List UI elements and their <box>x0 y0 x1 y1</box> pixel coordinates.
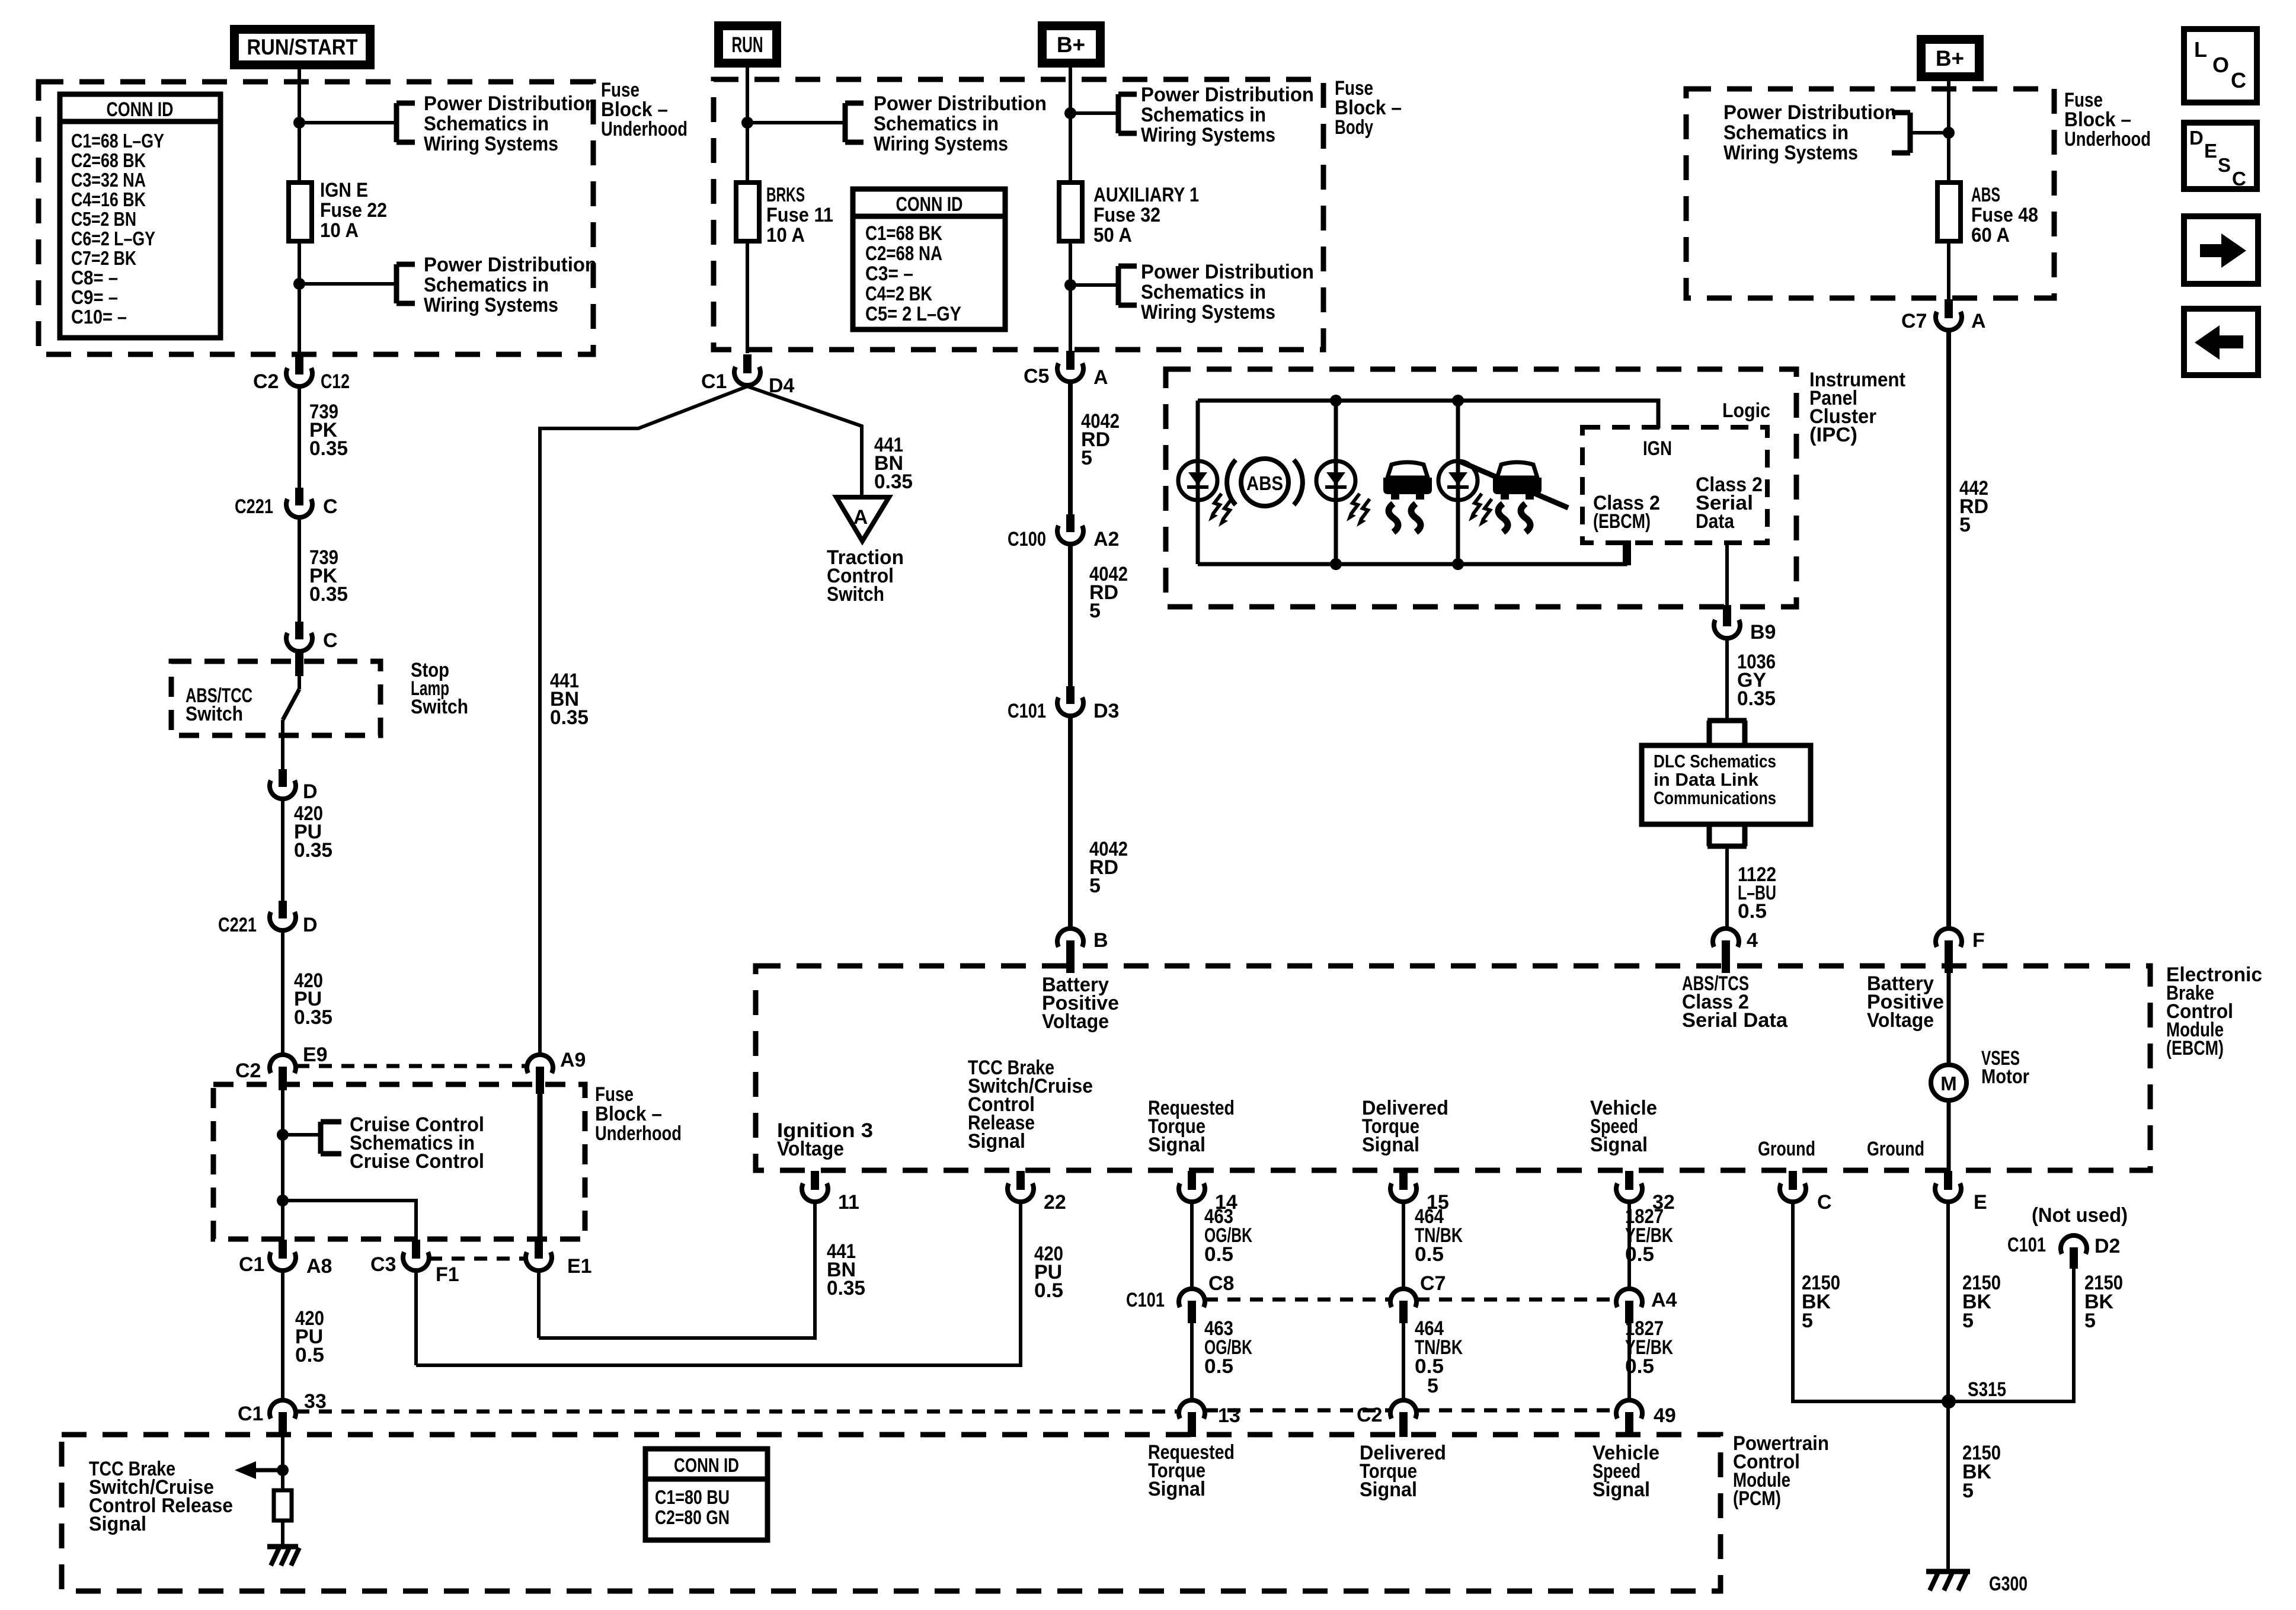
IPC lamp feed wire 2 <box>1330 395 1342 570</box>
connector C101 / D3 <box>1008 686 1119 722</box>
svg-text:0.5: 0.5 <box>1625 1355 1654 1378</box>
svg-text:4: 4 <box>1747 929 1758 952</box>
junction + branch Cruise Control Schematics <box>277 1113 484 1173</box>
wire 420 PU 0.5 : A8 down to C1/33 <box>283 1270 324 1400</box>
wire F to VSES motor <box>1947 966 1951 1065</box>
fuse BRKS Fuse 11 10 A <box>736 183 833 247</box>
svg-text:B9: B9 <box>1750 621 1776 644</box>
connector table CONN ID (underhood fuse block) <box>60 94 220 338</box>
label Traction Control Switch <box>827 546 904 606</box>
wire B+ down to C5/A <box>1069 68 1072 351</box>
svg-text:C3=32 NA: C3=32 NA <box>71 169 146 191</box>
wire 463 OG/BK 0.5 : C8 to 13 <box>1192 1317 1252 1400</box>
label Ground (right) <box>1867 1138 1924 1160</box>
connector C7 / A <box>1901 299 1986 332</box>
wire 739 PK 0.35 (upper) <box>299 386 348 488</box>
connector F (EBCM battery positive) <box>1936 929 1985 973</box>
wire 420 PU 0.35 (lower) <box>283 930 332 1055</box>
wire E9 stub down through cruise box <box>281 1090 284 1240</box>
label ABS/TCC Switch <box>186 684 252 725</box>
svg-text:60 A: 60 A <box>1971 224 2010 247</box>
svg-text:Schematics in: Schematics in <box>1141 104 1266 126</box>
svg-text:Voltage: Voltage <box>1042 1010 1109 1033</box>
connector C2 (PCM delivered torque) <box>1357 1400 1416 1437</box>
traction-off car symbol (slashed) <box>1460 462 1568 532</box>
connector table CONN ID (body fuse block) <box>853 189 1005 329</box>
connector D2 (not used) <box>2061 1235 2087 1269</box>
label Vehicle Speed Signal (EBCM) <box>1590 1097 1657 1156</box>
wire 420 PU 0.35 (upper) <box>283 799 332 901</box>
svg-text:C1=68 BK: C1=68 BK <box>865 222 942 245</box>
svg-text:C3: C3 <box>370 1253 396 1276</box>
IPC top bus wire <box>1198 401 1658 428</box>
connector C1 / 33 <box>238 1390 327 1437</box>
DLC schematics reference box <box>1642 745 1811 824</box>
electronic brake control module (EBCM) dashed box <box>756 966 2150 1170</box>
svg-text:Power Distribution: Power Distribution <box>1723 101 1897 124</box>
forward arrow navigation box <box>2184 216 2258 284</box>
connector 15 (delivered torque) <box>1390 1171 1449 1214</box>
svg-text:C8: C8 <box>1208 1272 1234 1295</box>
svg-text:BRKS: BRKS <box>766 184 805 206</box>
svg-text:Body: Body <box>1335 116 1373 139</box>
svg-text:A: A <box>853 506 868 529</box>
svg-text:RUN/START: RUN/START <box>247 35 358 59</box>
svg-text:Switch: Switch <box>186 703 243 725</box>
svg-text:C1: C1 <box>701 370 727 393</box>
connector 22 (TCC brake switch signal) <box>1008 1171 1066 1214</box>
off-page triangle A (traction control switch) <box>836 497 889 541</box>
branch symbol Power Distribution (lower, block1) <box>396 254 597 316</box>
label Class 2 (EBCM) <box>1593 492 1660 533</box>
svg-text:(EBCM): (EBCM) <box>2166 1037 2224 1060</box>
svg-text:Power Distribution: Power Distribution <box>1141 84 1314 106</box>
connector C221 / D <box>218 901 318 936</box>
dashed wire PCM row 13-C2-49 <box>1205 1409 1616 1413</box>
connector C (stop lamp switch) <box>286 622 338 652</box>
svg-text:(EBCM): (EBCM) <box>1593 510 1651 533</box>
svg-text:Serial Data: Serial Data <box>1682 1009 1788 1032</box>
IGN logic dashed box <box>1582 427 1767 543</box>
connector B9 <box>1714 605 1776 644</box>
resistor (pull-up) <box>274 1490 292 1521</box>
connector 14 (requested torque) <box>1179 1171 1237 1214</box>
svg-text:0.5: 0.5 <box>1625 1243 1654 1266</box>
svg-text:C1: C1 <box>239 1253 264 1276</box>
svg-text:Ground: Ground <box>1867 1138 1924 1160</box>
LOC navigation box <box>2184 29 2257 103</box>
svg-text:Signal: Signal <box>1148 1134 1205 1156</box>
svg-text:C5= 2 L–GY: C5= 2 L–GY <box>865 303 961 325</box>
signal arrow (TCC brake switch) <box>235 1461 283 1479</box>
svg-text:10 A: 10 A <box>320 219 359 242</box>
wire 4042 RD 5 (C101-B) <box>1070 716 1128 929</box>
svg-text:Switch: Switch <box>827 583 884 606</box>
label Class 2 Serial Data <box>1696 473 1763 533</box>
svg-text:0.35: 0.35 <box>309 437 348 460</box>
wire split C1/D4 to traction switch and to A9 column <box>540 386 747 1055</box>
svg-text:in Data Link: in Data Link <box>1654 769 1759 790</box>
fuse block - underhood (left) dashed box <box>39 82 593 354</box>
label Delivered Torque Signal (EBCM) <box>1362 1097 1448 1156</box>
svg-text:Schematics in: Schematics in <box>874 113 999 135</box>
svg-text:F1: F1 <box>436 1263 459 1286</box>
IPC left bus wire <box>1196 401 1200 564</box>
svg-text:C12: C12 <box>321 370 350 393</box>
svg-text:Signal: Signal <box>1148 1478 1205 1500</box>
svg-text:Underhood: Underhood <box>595 1122 682 1145</box>
svg-text:0.5: 0.5 <box>1204 1243 1233 1266</box>
connector 49 (PCM vehicle speed) <box>1616 1400 1676 1437</box>
svg-text:A8: A8 <box>306 1255 332 1278</box>
label 441 BN 0.35 (A9 branch) <box>550 670 589 729</box>
power tag B+ (underhood) <box>1917 35 1984 81</box>
wire 420 PU 0.5 : 22 to C3/F1 <box>416 1202 1063 1365</box>
connector C100 / A2 <box>1008 514 1119 550</box>
svg-text:C2=80 GN: C2=80 GN <box>655 1506 730 1528</box>
label Vehicle Speed Signal (PCM) <box>1593 1442 1659 1501</box>
svg-text:Wiring Systems: Wiring Systems <box>424 133 558 155</box>
svg-text:0.5: 0.5 <box>1204 1355 1233 1378</box>
IPC lamp feed wire 3 <box>1452 395 1464 570</box>
dashed wire F1 to E1 <box>429 1257 526 1261</box>
svg-text:0.35: 0.35 <box>309 583 348 606</box>
svg-text:0.5: 0.5 <box>1738 900 1767 923</box>
svg-text:10 A: 10 A <box>766 224 805 247</box>
svg-text:C7: C7 <box>1901 310 1927 332</box>
svg-text:C101: C101 <box>1126 1289 1165 1311</box>
svg-text:A2: A2 <box>1093 528 1119 550</box>
connector table CONN ID (PCM) <box>645 1449 768 1540</box>
svg-text:E9: E9 <box>303 1044 328 1066</box>
wire into switch + crossing stub <box>295 651 303 689</box>
svg-text:Signal: Signal <box>1362 1134 1419 1156</box>
wire class 2 serial data down from IGN box <box>1725 543 1729 605</box>
svg-text:AUXILIARY 1: AUXILIARY 1 <box>1093 184 1199 206</box>
svg-text:C6=2 L–GY: C6=2 L–GY <box>71 228 155 249</box>
svg-text:Data: Data <box>1696 510 1735 533</box>
dashed wire 33 to 13 <box>296 1410 1178 1414</box>
svg-text:O: O <box>2212 53 2229 77</box>
svg-text:S: S <box>2218 154 2231 176</box>
wire 33 into PCM + junction <box>277 1437 289 1490</box>
svg-text:C: C <box>323 495 338 518</box>
svg-text:M: M <box>1940 1073 1957 1094</box>
instrument panel cluster (IPC) dashed box <box>1166 369 1796 607</box>
wire 442 RD 5 <box>1949 330 1988 929</box>
svg-text:5: 5 <box>1962 1480 1974 1502</box>
svg-text:Fuse 11: Fuse 11 <box>766 204 833 226</box>
label Powertrain Control Module (PCM) <box>1733 1432 1829 1510</box>
svg-text:5: 5 <box>1081 447 1092 469</box>
power tag RUN/START <box>230 25 375 69</box>
svg-text:0.35: 0.35 <box>294 1006 332 1029</box>
label Requested Torque Signal (PCM) <box>1148 1441 1235 1500</box>
label Ignition 3 Voltage <box>777 1119 873 1160</box>
svg-text:Signal: Signal <box>1593 1478 1650 1501</box>
svg-text:D: D <box>303 780 318 803</box>
svg-text:C7: C7 <box>1420 1272 1446 1295</box>
svg-text:L: L <box>2194 37 2207 62</box>
label Fuse Block - Body <box>1335 77 1402 139</box>
label TCC Brake Switch/Cruise Control Release Signal (PCM) <box>89 1458 233 1535</box>
connector C1 / A8 <box>239 1240 332 1278</box>
wire resistor to internal ground <box>281 1521 284 1547</box>
svg-text:0.35: 0.35 <box>874 470 913 493</box>
svg-text:0.35: 0.35 <box>1737 687 1776 710</box>
connector D <box>270 769 318 803</box>
wire 464 TN/BK 0.5 5 : C7 to PCM C2 <box>1403 1317 1463 1400</box>
svg-text:C221: C221 <box>218 914 257 936</box>
label Ground (left) <box>1758 1138 1815 1160</box>
fuse block - underhood (right) dashed box <box>1686 89 2054 298</box>
label Fuse Block - Underhood (cruise area) <box>595 1083 682 1145</box>
junction S315 <box>1942 1378 2006 1409</box>
svg-text:IGN: IGN <box>1643 437 1672 460</box>
svg-text:Switch: Switch <box>411 696 468 718</box>
back arrow navigation box <box>2184 309 2258 375</box>
connector C5 / A <box>1024 351 1108 389</box>
wire 4042 RD 5 (C5-C100) <box>1070 382 1120 514</box>
wire RUN/START down through fuse block 1 <box>298 69 301 358</box>
wire 464 TN/BK 0.5 : 15 to C7 <box>1403 1202 1463 1289</box>
svg-text:C2: C2 <box>253 370 279 393</box>
label ABS/TCS Class 2 Serial Data <box>1682 972 1788 1032</box>
fuse block - underhood (cruise area) dashed box <box>213 1084 585 1239</box>
svg-text:C8= –: C8= – <box>71 267 118 289</box>
svg-text:A4: A4 <box>1651 1289 1677 1311</box>
power tag RUN <box>714 21 781 68</box>
wire 1122 L-BU 0.5 <box>1727 846 1776 929</box>
label IGN <box>1643 437 1672 460</box>
label Electronic Brake Control Module (EBCM) <box>2166 964 2262 1060</box>
wire 441 BN 0.35 : 11 to E1 <box>539 1202 865 1338</box>
svg-text:C: C <box>2232 168 2246 190</box>
svg-text:B+: B+ <box>1936 46 1964 71</box>
svg-text:0.35: 0.35 <box>294 839 332 862</box>
svg-text:5: 5 <box>2084 1310 2096 1332</box>
svg-text:C: C <box>323 629 338 652</box>
svg-text:Wiring Systems: Wiring Systems <box>424 294 558 316</box>
svg-text:CONN ID: CONN ID <box>896 193 963 216</box>
svg-text:A9: A9 <box>560 1049 586 1071</box>
connector 32 (vehicle speed) <box>1616 1171 1675 1214</box>
svg-text:C5: C5 <box>1024 365 1049 388</box>
connector E (ground) <box>1935 1171 1987 1214</box>
svg-text:5: 5 <box>1427 1375 1438 1397</box>
svg-text:Communications: Communications <box>1654 788 1776 808</box>
svg-text:Fuse 32: Fuse 32 <box>1093 204 1160 226</box>
svg-text:11: 11 <box>838 1191 859 1214</box>
svg-text:0.5: 0.5 <box>1034 1279 1063 1302</box>
fuse ABS Fuse 48 60 A <box>1937 183 2038 247</box>
svg-text:C7=2 BK: C7=2 BK <box>71 247 136 269</box>
svg-text:0.35: 0.35 <box>827 1277 865 1299</box>
svg-text:Signal: Signal <box>89 1513 146 1535</box>
label 441 BN 0.35 (traction branch) <box>874 434 913 493</box>
label (Not used) C101 / D2 <box>2007 1204 2128 1257</box>
svg-text:C101: C101 <box>2007 1234 2046 1256</box>
svg-text:49: 49 <box>1654 1404 1676 1427</box>
svg-text:Ground: Ground <box>1758 1138 1815 1160</box>
ground G300 <box>1926 1571 2028 1595</box>
svg-text:C2: C2 <box>235 1060 261 1082</box>
svg-text:S315: S315 <box>1968 1378 2006 1401</box>
svg-text:C2: C2 <box>1357 1404 1382 1426</box>
connector C (ground) <box>1780 1171 1832 1214</box>
connector C7 (C101) <box>1390 1272 1446 1323</box>
svg-text:C100: C100 <box>1008 528 1046 550</box>
label TCC Brake Switch/Cruise Control Release Signal (EBCM) <box>968 1057 1093 1153</box>
fuse AUXILIARY 1 Fuse 32 50 A <box>1059 183 1199 247</box>
svg-text:A: A <box>1971 310 1986 332</box>
wire VSES motor to connector E <box>1947 1100 1951 1171</box>
svg-text:Schematics in: Schematics in <box>1141 281 1266 303</box>
svg-text:CONN ID: CONN ID <box>674 1454 739 1476</box>
svg-text:Logic: Logic <box>1722 399 1770 422</box>
svg-text:C4=2 BK: C4=2 BK <box>865 283 932 305</box>
svg-text:0.35: 0.35 <box>550 706 589 729</box>
connector A9 <box>527 1049 586 1094</box>
svg-text:(Not used): (Not used) <box>2032 1204 2128 1227</box>
svg-text:22: 22 <box>1044 1191 1066 1214</box>
svg-text:D: D <box>2189 127 2204 149</box>
svg-text:G300: G300 <box>1989 1573 2028 1595</box>
wire ground E to G300 <box>1948 1202 2001 1571</box>
svg-text:5: 5 <box>1089 875 1101 897</box>
svg-text:DLC Schematics: DLC Schematics <box>1654 751 1776 772</box>
svg-text:Voltage: Voltage <box>1867 1009 1934 1032</box>
svg-text:C9= –: C9= – <box>71 286 118 308</box>
wire 463 OG/BK 0.5 : 14 to C8 <box>1192 1202 1252 1289</box>
svg-text:5: 5 <box>1959 514 1971 536</box>
label Requested Torque Signal (EBCM) <box>1148 1097 1235 1156</box>
indicator LED 1 <box>1178 461 1232 527</box>
wire A9 to E1 (inside fuse block) <box>538 1093 543 1240</box>
dashed wire C101 row C8-C7-A4 <box>1205 1298 1616 1302</box>
connector C221 / C <box>235 488 338 518</box>
label Fuse Block - Underhood (right) <box>2064 89 2151 151</box>
IPC bottom bus wire <box>1198 544 1625 564</box>
wire switch to connector D <box>281 720 284 769</box>
connector C1 / D4 <box>701 354 795 397</box>
svg-text:50 A: 50 A <box>1093 224 1132 247</box>
svg-text:ABS: ABS <box>1971 184 2000 206</box>
wire 4042 RD 5 (C100-C101) <box>1070 544 1128 686</box>
indicator LED 2 <box>1316 461 1370 527</box>
ABS warning symbol <box>1227 459 1303 506</box>
svg-text:Wiring Systems: Wiring Systems <box>1141 124 1275 146</box>
wire 1827 YE/BK 0.5 : 32 to A4 <box>1625 1202 1673 1289</box>
connector 11 (ignition 3 voltage) <box>802 1171 859 1214</box>
traction-active car symbol <box>1383 462 1432 532</box>
connector B (EBCM battery positive) <box>1057 929 1108 973</box>
wire RUN down to C1/D4 <box>746 68 749 353</box>
svg-text:C101: C101 <box>1008 700 1046 722</box>
powertrain control module (PCM) dashed box <box>62 1435 1721 1591</box>
fuse IGN E Fuse 22 10 A <box>289 179 387 242</box>
svg-text:C2=68 BK: C2=68 BK <box>71 149 146 171</box>
svg-text:CONN ID: CONN ID <box>107 98 174 121</box>
svg-text:C2=68 NA: C2=68 NA <box>865 242 942 265</box>
svg-text:Wiring Systems: Wiring Systems <box>874 133 1008 155</box>
junction to lower power distribution branch <box>293 278 396 290</box>
connector C2 / E9 <box>235 1044 328 1090</box>
wire B+ down through fuse 48 <box>1947 81 1950 299</box>
svg-text:5: 5 <box>1802 1310 1813 1332</box>
svg-text:Wiring Systems: Wiring Systems <box>1141 301 1275 324</box>
svg-text:E: E <box>1974 1191 1987 1214</box>
svg-text:Power Distribution: Power Distribution <box>424 254 597 276</box>
label Delivered Torque Signal (PCM) <box>1360 1442 1446 1501</box>
svg-text:F: F <box>1972 929 1985 952</box>
svg-text:D: D <box>303 914 318 936</box>
svg-text:Motor: Motor <box>1981 1065 2029 1088</box>
svg-text:C1: C1 <box>238 1403 263 1425</box>
svg-text:C1=68 L–GY: C1=68 L–GY <box>71 130 164 152</box>
fuse block - body dashed box <box>714 79 1323 350</box>
wire 1827 YE/BK 0.5 : A4 to 49 <box>1625 1317 1673 1400</box>
svg-text:C3= –: C3= – <box>865 263 913 285</box>
label Logic <box>1722 399 1770 422</box>
lead-in bracket to DLC box (top) <box>1707 721 1747 745</box>
indicator LED 3 <box>1438 461 1492 527</box>
svg-text:C: C <box>1817 1191 1832 1214</box>
svg-text:ABS: ABS <box>1246 472 1283 494</box>
switch blade <box>283 689 299 720</box>
junction + branch Power Distribution (right block) <box>1723 101 1955 164</box>
junction + branch Power Distribution (aux lower) <box>1064 261 1314 324</box>
svg-text:Power Distribution: Power Distribution <box>424 92 597 115</box>
junction + branch Power Distribution (block2) <box>741 92 1047 155</box>
svg-text:Underhood: Underhood <box>601 118 687 140</box>
svg-text:(IPC): (IPC) <box>1809 424 1857 446</box>
svg-text:C: C <box>2231 68 2246 92</box>
svg-text:B: B <box>1093 929 1108 952</box>
connector C101 / C8 <box>1126 1272 1234 1323</box>
svg-text:Fuse 22: Fuse 22 <box>320 199 387 222</box>
wire class2(EBCM) to bottom bus <box>1623 540 1631 565</box>
wire D2 to S315 <box>1955 1268 2123 1401</box>
svg-text:(PCM): (PCM) <box>1733 1487 1781 1510</box>
stop lamp switch dashed box <box>171 661 380 735</box>
label Battery Positive Voltage (left) <box>1042 974 1119 1033</box>
svg-text:D2: D2 <box>2094 1235 2120 1257</box>
junction + wire to connector C3/F1 <box>277 1195 416 1240</box>
svg-text:C1=80 BU: C1=80 BU <box>655 1486 730 1508</box>
svg-text:Power Distribution: Power Distribution <box>874 92 1047 115</box>
wire ground C to S315 <box>1793 1202 1942 1401</box>
svg-text:Fuse 48: Fuse 48 <box>1971 204 2038 226</box>
svg-text:E: E <box>2204 140 2217 162</box>
svg-text:RUN: RUN <box>732 33 763 57</box>
lead-out bracket from DLC box (bottom) <box>1707 824 1747 846</box>
svg-text:Wiring Systems: Wiring Systems <box>1723 142 1858 164</box>
junction to upper power distribution branch <box>293 117 396 129</box>
svg-text:0.5: 0.5 <box>295 1344 324 1366</box>
svg-text:13: 13 <box>1218 1404 1240 1427</box>
connector 13 (PCM requested torque) <box>1179 1400 1240 1437</box>
svg-text:Schematics in: Schematics in <box>1723 121 1849 144</box>
wire S315 to G300 with label 2150 BK 5 <box>1962 1442 2001 1502</box>
svg-text:Cruise Control: Cruise Control <box>350 1150 484 1173</box>
label Battery Positive Voltage (right) <box>1867 972 1944 1032</box>
power tag B+ (fuse block body) <box>1038 21 1105 68</box>
svg-text:Signal: Signal <box>1360 1478 1417 1501</box>
svg-text:D3: D3 <box>1093 700 1119 722</box>
svg-text:B+: B+ <box>1057 33 1085 57</box>
label Instrument Panel Cluster (IPC) <box>1809 369 1905 446</box>
